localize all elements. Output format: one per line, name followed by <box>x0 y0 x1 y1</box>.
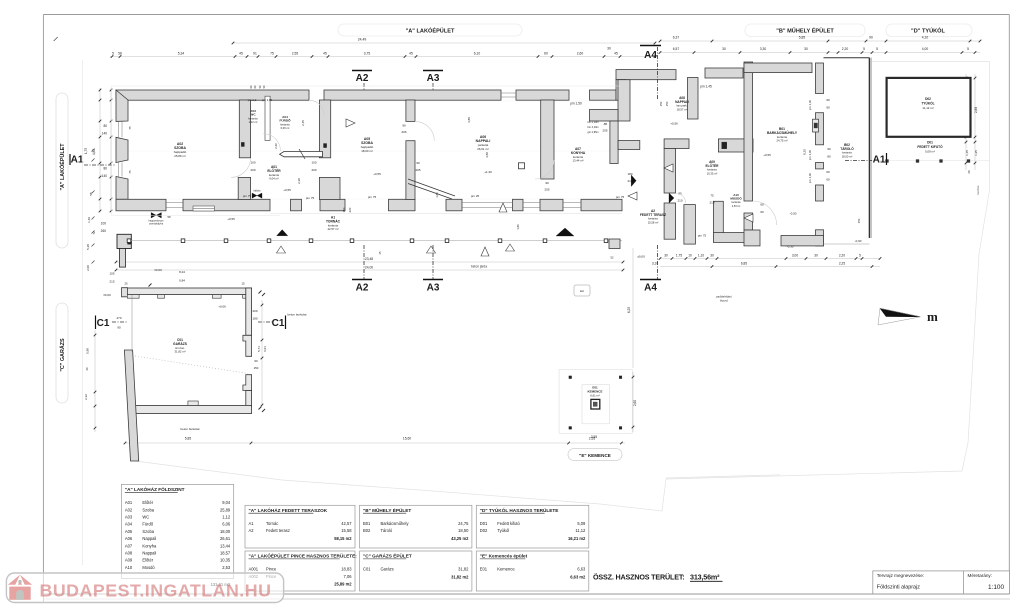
svg-text:60: 60 <box>826 170 830 174</box>
svg-text:52: 52 <box>610 256 614 260</box>
kemence dim 6.25 vertical <box>632 248 634 368</box>
garage top wall notches <box>127 295 139 299</box>
svg-text:3,30: 3,30 <box>760 47 767 51</box>
svg-text:2,20: 2,20 <box>842 47 849 51</box>
svg-text:kerámia: kerámia <box>648 217 658 221</box>
table D tyukol <box>476 505 589 548</box>
svg-text:±0,00: ±0,00 <box>637 255 645 259</box>
B01 door arc <box>753 201 777 225</box>
svg-text:D02: D02 <box>925 97 931 101</box>
svg-text:31,82 m²: 31,82 m² <box>174 350 185 354</box>
svg-text:5: 5 <box>112 51 114 55</box>
svg-text:90: 90 <box>826 98 830 102</box>
left capsule "C" GARAZS vertical <box>56 303 68 403</box>
svg-text:"C" GARÁZS ÉPÜLET: "C" GARÁZS ÉPÜLET <box>363 552 412 559</box>
svg-text:"E" KEMENCE: "E" KEMENCE <box>579 453 611 458</box>
svg-text:-0,30: -0,30 <box>787 245 794 249</box>
svg-text:30: 30 <box>814 253 818 257</box>
svg-text:140: 140 <box>102 132 108 136</box>
svg-text:+0,55: +0,55 <box>283 188 291 192</box>
svg-text:4,10: 4,10 <box>922 36 929 40</box>
svg-text:90: 90 <box>545 181 549 185</box>
building B bottom wall <box>744 230 760 246</box>
svg-text:"B" MŰHELY ÉPÜLET: "B" MŰHELY ÉPÜLET <box>363 506 411 513</box>
svg-text:100: 100 <box>311 161 316 165</box>
svg-text:80: 80 <box>103 166 107 170</box>
table E kemences <box>476 551 589 591</box>
svg-text:205: 205 <box>602 129 607 133</box>
svg-text:6,63: 6,63 <box>577 567 586 572</box>
svg-text:24,75 m²: 24,75 m² <box>776 139 787 143</box>
header capsule "D" TYUKOL <box>886 24 972 37</box>
svg-text:18,83: 18,83 <box>341 567 352 572</box>
svg-text:140: 140 <box>102 174 108 178</box>
svg-text:5,85: 5,85 <box>799 36 806 40</box>
svg-text:Nappali: Nappali <box>142 536 156 541</box>
section marker A2 top <box>352 70 372 72</box>
svg-text:13,44: 13,44 <box>220 543 231 548</box>
top wall window sill <box>501 92 516 94</box>
svg-text:5: 5 <box>967 47 969 51</box>
svg-text:60: 60 <box>544 51 548 55</box>
svg-text:80: 80 <box>827 155 831 159</box>
svg-text:6,61 m²: 6,61 m² <box>590 394 600 398</box>
svg-text:kályha: kályha <box>254 190 262 193</box>
svg-text:pm 1,95: pm 1,95 <box>262 98 273 102</box>
dimension line top segments <box>110 56 655 58</box>
window in bottom wall <box>193 206 214 211</box>
table C garazs <box>360 551 472 591</box>
svg-text:Pince: Pince <box>266 567 277 572</box>
svg-text:A05: A05 <box>125 529 133 534</box>
svg-text:26,61: 26,61 <box>220 536 231 541</box>
svg-text:5,71: 5,71 <box>257 346 261 352</box>
dimension line garage-kemence 15.60 <box>125 442 625 444</box>
svg-text:6,01: 6,01 <box>263 346 267 352</box>
svg-text:pm 2,2: pm 2,2 <box>248 98 257 102</box>
svg-text:pm 1,00: pm 1,00 <box>808 150 812 161</box>
building D chicken coop D02 <box>887 78 971 137</box>
svg-text:C01: C01 <box>363 567 371 572</box>
D kifuto posts <box>886 160 889 163</box>
svg-text:A01: A01 <box>125 500 133 505</box>
svg-text:13,44 m²: 13,44 m² <box>572 159 583 163</box>
svg-text:5: 5 <box>863 47 865 51</box>
svg-text:2,25: 2,25 <box>839 262 845 266</box>
svg-text:A3: A3 <box>427 73 440 84</box>
garage right wall upper <box>246 288 252 335</box>
svg-text:58: 58 <box>118 51 122 55</box>
svg-text:75: 75 <box>710 194 714 198</box>
svg-text:"D" TYÚKÓL: "D" TYÚKÓL <box>911 27 945 35</box>
stairs to basement <box>408 179 455 196</box>
terrain line <box>666 475 780 478</box>
svg-text:1,80: 1,80 <box>516 224 520 230</box>
partition A02-WC <box>239 100 250 158</box>
svg-text:pm 75: pm 75 <box>698 234 707 238</box>
door black triangles <box>631 175 636 187</box>
svg-text:15,58: 15,58 <box>341 528 352 533</box>
svg-text:FEDETT KIFUTÓ: FEDETT KIFUTÓ <box>917 144 943 149</box>
svg-text:210: 210 <box>709 201 714 205</box>
garage left dim line <box>94 330 96 432</box>
svg-text:3,75: 3,75 <box>364 51 371 55</box>
north arrow <box>880 308 921 317</box>
svg-text:pm 75: pm 75 <box>368 195 377 199</box>
svg-text:90: 90 <box>402 124 406 128</box>
building A bottom wall <box>116 199 166 211</box>
svg-text:2,45: 2,45 <box>301 120 305 126</box>
svg-text:B01: B01 <box>363 521 371 526</box>
svg-text:A08: A08 <box>125 551 133 556</box>
building B top wall <box>744 63 812 73</box>
svg-text:270: 270 <box>116 316 121 320</box>
tornac floor line <box>270 213 622 215</box>
svg-text:Fedett kifutó: Fedett kifutó <box>497 521 520 526</box>
guide lines <box>116 100 622 102</box>
svg-text:kerámia: kerámia <box>707 168 717 172</box>
garage interior left line <box>131 295 133 352</box>
svg-text:beton burkolat: beton burkolat <box>180 427 199 431</box>
building A upper wall A08 <box>616 70 676 80</box>
svg-text:kút: kút <box>580 289 584 293</box>
svg-text:±0,00: ±0,00 <box>103 293 111 297</box>
svg-text:24,49: 24,49 <box>358 38 367 42</box>
svg-text:90: 90 <box>416 161 420 165</box>
svg-text:45: 45 <box>614 51 618 55</box>
svg-text:6,57: 6,57 <box>673 47 680 51</box>
svg-text:"A" LAKÓÉPÜLET PINCE HASZNOS T: "A" LAKÓÉPÜLET PINCE HASZNOS TERÜLETE: <box>249 552 358 559</box>
svg-text:pm 75: pm 75 <box>243 194 252 198</box>
garage right wall lower <box>246 391 252 407</box>
B02 storage outline <box>824 57 870 59</box>
garage dotted drain line <box>135 356 248 374</box>
table A fedett teraszok <box>245 505 355 548</box>
svg-text:"D" TYÚKÓL HASZNOS TERÜLETE: "D" TYÚKÓL HASZNOS TERÜLETE <box>480 506 559 513</box>
property boundary line <box>135 62 990 511</box>
svg-text:90: 90 <box>826 106 830 110</box>
wall A08-A09 <box>688 78 699 120</box>
dimension row below B <box>660 258 880 260</box>
svg-text:1,80: 1,80 <box>435 192 439 198</box>
svg-text:+0,56: +0,56 <box>670 122 678 126</box>
table B muhely epulet <box>360 505 472 548</box>
section marker A1 right <box>845 160 872 162</box>
svg-text:2,32: 2,32 <box>84 394 88 400</box>
svg-text:2,88: 2,88 <box>974 107 978 113</box>
section marker A4 top <box>640 45 661 47</box>
entrance triangles <box>277 230 288 236</box>
svg-text:kerámia: kerámia <box>842 151 852 155</box>
svg-text:75: 75 <box>128 170 132 174</box>
open triangles below porch <box>277 246 286 253</box>
svg-text:91: 91 <box>253 51 257 55</box>
svg-text:30: 30 <box>664 253 668 257</box>
svg-text:180: 180 <box>252 317 257 321</box>
svg-text:150: 150 <box>857 218 861 223</box>
svg-text:-85: -85 <box>603 122 608 126</box>
svg-text:A1: A1 <box>71 155 84 166</box>
svg-text:24,00: 24,00 <box>365 265 373 269</box>
svg-text:+0,06: +0,06 <box>218 305 226 309</box>
svg-text:205: 205 <box>415 168 420 172</box>
svg-text:TYÚKÓL: TYÚKÓL <box>921 101 934 106</box>
svg-text:lépcső: lépcső <box>720 299 729 303</box>
svg-text:45: 45 <box>239 51 243 55</box>
svg-text:E01: E01 <box>480 567 488 572</box>
svg-text:6,10: 6,10 <box>474 51 481 55</box>
svg-text:A4: A4 <box>644 283 657 294</box>
partition A09 walls <box>610 121 618 164</box>
svg-text:80: 80 <box>103 124 107 128</box>
section marker A3 bottom <box>423 279 443 281</box>
svg-text:42,57: 42,57 <box>341 521 352 526</box>
svg-text:gm 2,95m: gm 2,95m <box>587 131 598 134</box>
svg-text:Szoba: Szoba <box>142 507 154 512</box>
porch sill lines <box>462 202 513 204</box>
svg-text:Előtér: Előtér <box>142 500 153 505</box>
svg-text:200: 200 <box>250 168 255 172</box>
svg-text:18,50 m²: 18,50 m² <box>842 154 853 158</box>
svg-text:bm 3,19m: bm 3,19m <box>587 126 598 129</box>
svg-text:6,63 m2: 6,63 m2 <box>570 574 586 579</box>
svg-text:9,04 m²: 9,04 m² <box>269 177 279 181</box>
svg-text:"C" GARÁZS: "C" GARÁZS <box>59 338 66 372</box>
svg-text:FEDETT TERASZ: FEDETT TERASZ <box>640 213 666 217</box>
svg-text:pm 1,50: pm 1,50 <box>570 102 582 106</box>
svg-text:210: 210 <box>677 199 682 203</box>
svg-text:A2: A2 <box>356 283 369 294</box>
table A pince <box>245 551 355 591</box>
svg-text:A06: A06 <box>125 536 133 541</box>
roof overhang faint outline building A <box>111 85 621 87</box>
header capsule "A" LAKOEPULET <box>338 24 522 36</box>
svg-text:15: 15 <box>241 282 245 286</box>
workbench in B01 <box>813 119 819 132</box>
svg-text:215: 215 <box>109 280 114 284</box>
svg-text:18,50: 18,50 <box>458 528 469 533</box>
svg-text:18,00 m²: 18,00 m² <box>361 149 372 153</box>
porch edge line <box>129 240 622 242</box>
svg-text:11,12 m²: 11,12 m² <box>922 106 933 110</box>
svg-text:5,09: 5,09 <box>577 521 586 526</box>
svg-text:16,21 m2: 16,21 m2 <box>568 536 586 541</box>
left dimension column <box>99 88 101 212</box>
logo house icon <box>8 575 32 600</box>
svg-text:5,28: 5,28 <box>86 244 90 250</box>
svg-text:2,20: 2,20 <box>274 143 278 149</box>
svg-text:30: 30 <box>710 253 714 257</box>
svg-text:1,15: 1,15 <box>965 150 969 156</box>
svg-text:ÖSSZ. HASZNOS TERÜLET:: ÖSSZ. HASZNOS TERÜLET: <box>593 573 684 582</box>
svg-text:25: 25 <box>124 282 128 286</box>
svg-text:Kemence: Kemence <box>497 567 515 572</box>
kalyha bowtie symbols <box>151 213 156 219</box>
svg-text:8,25: 8,25 <box>803 149 807 155</box>
svg-text:A4: A4 <box>644 50 657 61</box>
garage top wall <box>125 288 252 295</box>
dimension line top right 6.37 <box>660 40 980 42</box>
porch pillars bottom band <box>291 199 302 211</box>
svg-text:23,48: 23,48 <box>365 257 373 261</box>
svg-text:A04: A04 <box>125 522 133 527</box>
svg-text:Fedett terasz: Fedett terasz <box>266 528 290 533</box>
svg-text:2,55: 2,55 <box>591 435 597 439</box>
svg-text:WC: WC <box>250 113 256 117</box>
left wall window lines <box>118 121 120 137</box>
svg-text:45: 45 <box>323 51 327 55</box>
svg-text:A10: A10 <box>125 565 133 570</box>
svg-text:24,75: 24,75 <box>458 521 469 526</box>
terrace walls <box>664 139 689 149</box>
svg-text:8,24: 8,24 <box>179 270 185 274</box>
svg-text:4,00: 4,00 <box>922 47 929 51</box>
left capsule "A" LAKOEPULET vertical <box>56 93 68 248</box>
svg-text:A1: A1 <box>873 155 886 166</box>
svg-text:beton járda: beton járda <box>471 264 487 268</box>
svg-text:150: 150 <box>665 101 669 106</box>
svg-text:1,10: 1,10 <box>698 253 704 257</box>
svg-text:25,89 m2: 25,89 m2 <box>334 582 352 587</box>
svg-text:+0,55: +0,55 <box>763 153 771 157</box>
thin partition WC-FURDO <box>265 96 270 140</box>
svg-text:30: 30 <box>722 47 726 51</box>
svg-text:+0,55: +0,55 <box>373 172 381 176</box>
dimension line top right row2 <box>660 52 980 54</box>
terrace corner post <box>609 239 620 249</box>
svg-text:-0,50: -0,50 <box>790 212 797 216</box>
svg-text:6,25: 6,25 <box>627 307 631 313</box>
svg-text:100: 100 <box>101 222 107 226</box>
svg-text:pm 75: pm 75 <box>616 195 625 199</box>
svg-text:A02: A02 <box>125 507 133 512</box>
building B right wall <box>816 63 824 94</box>
svg-text:25,89: 25,89 <box>220 507 231 512</box>
A09-A10 walls <box>718 139 753 152</box>
partition FURDO right <box>319 100 330 158</box>
svg-text:4,80: 4,80 <box>485 152 489 158</box>
svg-text:Tároló: Tároló <box>381 528 393 533</box>
svg-text:5,34: 5,34 <box>178 51 185 55</box>
svg-text:5,09 m²: 5,09 m² <box>925 150 935 154</box>
svg-text:18,00: 18,00 <box>220 529 231 534</box>
svg-text:Előtér: Előtér <box>142 558 153 563</box>
svg-text:"A" LAKÓHÁZ FEDETT TERASZOK: "A" LAKÓHÁZ FEDETT TERASZOK <box>249 506 328 513</box>
garage bottom wall <box>131 405 252 413</box>
svg-text:90: 90 <box>254 359 258 363</box>
svg-text:2,60: 2,60 <box>633 400 637 406</box>
right dimension column near D <box>965 74 967 170</box>
svg-text:Garázs: Garázs <box>381 567 394 572</box>
svg-text:10,35: 10,35 <box>220 558 231 563</box>
svg-text:2,53: 2,53 <box>222 565 231 570</box>
svg-text:Tornác: Tornác <box>266 521 278 526</box>
svg-text:cserépkályha: cserépkályha <box>149 222 164 225</box>
section marker C1 left <box>95 316 97 330</box>
svg-text:TÁROLÓ: TÁROLÓ <box>840 146 854 151</box>
svg-text:15,58 m²: 15,58 m² <box>648 220 659 224</box>
kut well box <box>574 285 590 296</box>
svg-text:Méretarány:: Méretarány: <box>968 573 993 578</box>
svg-text:kerámia: kerámia <box>732 201 742 204</box>
svg-text:B02: B02 <box>363 528 371 533</box>
oval label "E" KEMENCE <box>568 449 622 461</box>
svg-text:Nappali: Nappali <box>142 551 156 556</box>
garage door jamb lower <box>243 375 252 391</box>
svg-text:pm 1,00: pm 1,00 <box>808 100 812 111</box>
svg-text:1:100: 1:100 <box>988 584 1004 591</box>
svg-text:"A" LAKÓHÁZ FÖLDSZINT: "A" LAKÓHÁZ FÖLDSZINT <box>125 485 185 492</box>
garage gate post <box>117 234 131 248</box>
svg-text:5,98: 5,98 <box>86 348 90 354</box>
porch posts <box>127 239 131 243</box>
section marker A3 top <box>423 70 443 72</box>
dimension line overall 24.49 <box>233 42 655 44</box>
svg-text:5,85: 5,85 <box>185 437 192 441</box>
svg-text:206: 206 <box>401 130 406 134</box>
svg-text:75: 75 <box>270 51 274 55</box>
svg-text:kerítés: kerítés <box>976 185 980 195</box>
svg-text:2,53 m²: 2,53 m² <box>732 205 741 208</box>
svg-text:150: 150 <box>659 101 663 106</box>
svg-text:60: 60 <box>826 178 830 182</box>
svg-text:7,06: 7,06 <box>344 574 353 579</box>
svg-text:WC: WC <box>142 515 149 520</box>
svg-text:25,89 m²: 25,89 m² <box>174 154 185 158</box>
svg-text:75: 75 <box>128 126 132 130</box>
dimension line 23.48 <box>116 261 623 263</box>
svg-text:42,57 m²: 42,57 m² <box>327 227 338 231</box>
svg-text:C1: C1 <box>272 318 285 329</box>
svg-text:NAPPALI: NAPPALI <box>675 100 689 104</box>
svg-text:18,57 m²: 18,57 m² <box>677 107 688 111</box>
svg-text:A3: A3 <box>427 283 440 294</box>
svg-text:15: 15 <box>378 251 382 255</box>
svg-text:kerámia: kerámia <box>280 122 290 126</box>
svg-text:15,60: 15,60 <box>403 437 411 441</box>
svg-text:30: 30 <box>804 47 808 51</box>
svg-text:pm 1,00: pm 1,00 <box>808 173 812 184</box>
svg-text:5: 5 <box>876 47 878 51</box>
svg-text:Konyha: Konyha <box>142 543 157 548</box>
svg-text:9,04: 9,04 <box>222 500 231 505</box>
svg-text:D01: D01 <box>927 141 933 145</box>
svg-text:ELŐTÉR: ELŐTÉR <box>706 163 720 168</box>
svg-text:6,37: 6,37 <box>673 36 680 40</box>
svg-text:1,49: 1,49 <box>87 217 91 223</box>
svg-text:30: 30 <box>607 47 611 51</box>
svg-text:"E" Kemencés épület: "E" Kemencés épület <box>480 554 528 559</box>
svg-text:pm 75: pm 75 <box>306 196 315 200</box>
svg-text:"B" MŰHELY ÉPÜLET: "B" MŰHELY ÉPÜLET <box>776 27 834 35</box>
svg-text:100: 100 <box>250 161 255 165</box>
svg-text:200: 200 <box>311 168 316 172</box>
bottom secondary line <box>43 598 1010 600</box>
svg-text:60: 60 <box>760 210 764 214</box>
svg-text:150: 150 <box>342 207 346 212</box>
svg-text:1,12 m²: 1,12 m² <box>249 120 258 124</box>
svg-text:5: 5 <box>859 253 861 257</box>
svg-text:31,82 m2: 31,82 m2 <box>451 574 469 579</box>
svg-text:10: 10 <box>688 253 692 257</box>
B01 left wall <box>744 62 753 201</box>
section marker A4 bottom <box>640 279 661 281</box>
svg-text:A1: A1 <box>249 521 255 526</box>
svg-text:3,00: 3,00 <box>792 253 798 257</box>
svg-text:43,25 m2: 43,25 m2 <box>451 536 469 541</box>
svg-text:kerámia: kerámia <box>248 116 258 120</box>
svg-text:2,00: 2,00 <box>86 265 90 271</box>
